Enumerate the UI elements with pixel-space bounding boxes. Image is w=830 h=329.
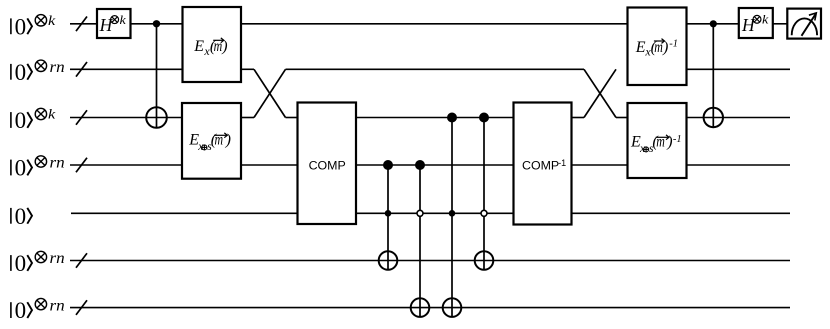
swap crossing right (q2/q3) <box>584 69 616 117</box>
CNOT right: control q1 -> target q3 <box>704 24 723 127</box>
svg-text:COMP: COMP <box>522 159 559 173</box>
wire q2 segments <box>70 68 790 70</box>
svg-text:0: 0 <box>15 298 27 323</box>
box Ex <box>183 7 242 82</box>
svg-text:E: E <box>635 39 646 56</box>
gate column x=388: ctrl q4, ctrl q5, target q6 <box>379 165 398 270</box>
box COMP-1 <box>514 103 572 225</box>
svg-text:0: 0 <box>15 204 27 229</box>
svg-text:x: x <box>639 143 646 155</box>
svg-text:m: m <box>656 134 665 151</box>
wire q4 segments <box>70 164 790 166</box>
ket label q4 <box>11 155 65 181</box>
svg-text:k: k <box>762 12 769 27</box>
gate column x=452: ctrl q3, ctrl q5, target q7 <box>443 118 462 317</box>
wire q5 segments <box>71 212 790 214</box>
box Exs-1 <box>628 103 687 178</box>
wire q6 <box>70 260 790 262</box>
ket label q1 <box>11 14 56 39</box>
label H2 <box>741 12 769 35</box>
label Ex(m)-1 <box>635 39 678 59</box>
svg-text:-1: -1 <box>673 134 682 145</box>
svg-text:0: 0 <box>15 60 27 85</box>
label Exs(m)-1 <box>630 134 682 155</box>
ket label q5 <box>11 204 32 229</box>
wire q1 segments <box>70 23 787 25</box>
svg-text:k: k <box>120 12 127 27</box>
box H1 <box>97 9 131 38</box>
svg-text:m: m <box>215 132 224 149</box>
svg-text:E: E <box>193 38 204 55</box>
ket label q3 <box>11 108 56 133</box>
wire q7 <box>70 307 790 309</box>
svg-text:x: x <box>197 141 204 153</box>
gate column x=484: ctrl q3, antictrl q5, target q6 <box>475 118 494 270</box>
label H1 <box>99 12 126 35</box>
label Exs(m) <box>188 132 231 153</box>
ket label q6 <box>11 250 65 276</box>
gate column x=420: ctrl q4, antictrl q5, target q7 <box>411 165 430 317</box>
ket label q7 <box>11 297 65 323</box>
box Exs <box>182 103 241 179</box>
bundle slashes <box>76 17 87 315</box>
svg-text:0: 0 <box>15 251 27 276</box>
svg-text:0: 0 <box>15 14 27 39</box>
box Ex-1 <box>628 8 687 86</box>
box H2 <box>739 8 773 38</box>
wire q3 segments <box>70 117 790 119</box>
swap crossing left (q2/q3) <box>254 69 286 117</box>
svg-text:0: 0 <box>15 108 27 133</box>
CNOT 1: control q1 -> target q3 <box>146 24 167 128</box>
svg-text:0: 0 <box>15 156 27 181</box>
label Ex(m) <box>193 38 227 58</box>
svg-text:k: k <box>48 14 56 29</box>
svg-text:rn: rn <box>50 155 65 172</box>
svg-text:-1: -1 <box>669 39 678 50</box>
label COMP-1 <box>522 158 566 173</box>
svg-text:k: k <box>48 108 56 123</box>
box COMP <box>298 103 357 225</box>
svg-text:rn: rn <box>50 250 65 267</box>
box meter <box>787 9 821 39</box>
svg-text:rn: rn <box>50 297 65 314</box>
ket label q2 <box>11 59 65 85</box>
svg-text:rn: rn <box>50 59 65 76</box>
svg-text:COMP: COMP <box>309 159 346 173</box>
svg-text:-1: -1 <box>558 158 566 168</box>
meter symbol <box>792 13 817 36</box>
